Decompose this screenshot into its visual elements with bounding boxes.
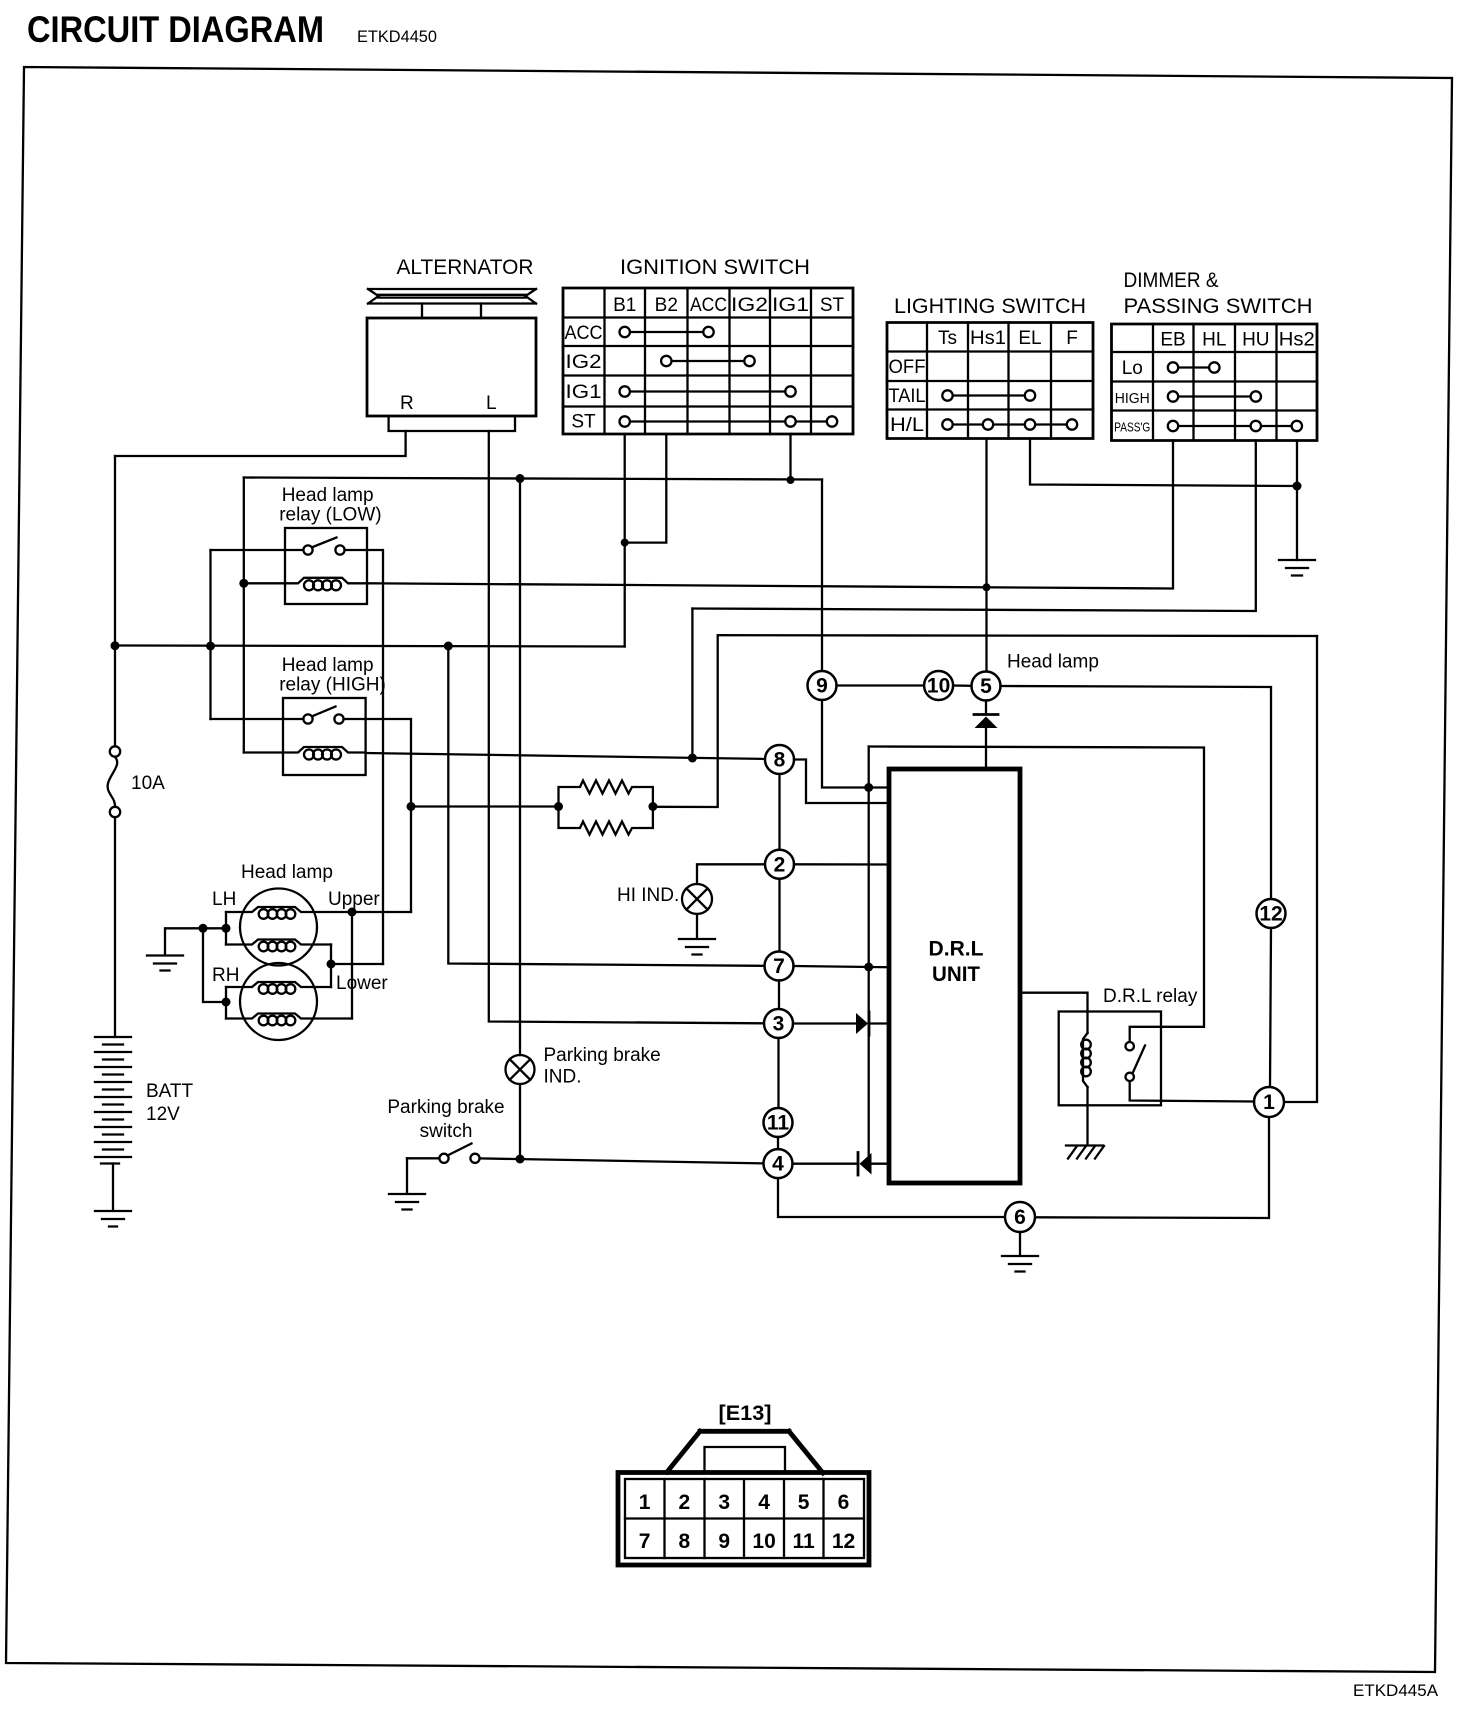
junction LH bracket xyxy=(222,924,231,933)
svg-text:ETKD4450: ETKD4450 xyxy=(357,27,437,46)
svg-text:BATT: BATT xyxy=(146,1081,194,1102)
svg-text:Head lamp: Head lamp xyxy=(282,655,374,676)
ground D.R.L relay (hatched) xyxy=(1066,1146,1104,1159)
dimmer HIGH row contacts xyxy=(1168,391,1261,401)
svg-text:EL: EL xyxy=(1018,328,1041,349)
svg-text:Head lamp: Head lamp xyxy=(1007,652,1099,673)
wire diode common rail vertical xyxy=(868,747,870,1164)
lighting switch H/L row contacts xyxy=(942,419,1077,429)
wire resistor net down right side to node 1 xyxy=(1284,636,1317,1102)
junction Lower xyxy=(327,960,336,969)
wire LH lower / RH upper bracket xyxy=(330,945,332,988)
svg-text:9: 9 xyxy=(718,1530,730,1553)
wire head lamp common to ground xyxy=(165,928,226,954)
svg-text:Head lamp: Head lamp xyxy=(241,862,333,883)
svg-text:Upper: Upper xyxy=(328,889,380,910)
wire dimmer EB column down to relay LOW coil wire xyxy=(367,441,1173,589)
svg-text:Hs2: Hs2 xyxy=(1279,330,1315,351)
svg-text:IG2: IG2 xyxy=(566,352,602,373)
ignition switch IG2 row contacts xyxy=(661,356,755,366)
wire dimmer HU column down to relay HIGH coil net xyxy=(692,441,1255,612)
diode below node 5 xyxy=(974,701,998,770)
junction relay LOW coil branch xyxy=(239,579,248,588)
wire LH to RH common link xyxy=(203,928,226,1002)
svg-text:IG1: IG1 xyxy=(566,382,602,403)
svg-text:DIMMER &: DIMMER & xyxy=(1124,269,1219,292)
junction lamp on switch wire xyxy=(516,1155,525,1164)
wire battery positive rail (left vertical) xyxy=(114,456,116,746)
wire node 6 to node 1 riser xyxy=(1035,1117,1269,1218)
wire node 4 to node 6 ground run xyxy=(778,1179,1005,1217)
svg-text:switch: switch xyxy=(420,1121,473,1142)
svg-text:IG1: IG1 xyxy=(772,295,809,316)
svg-text:UNIT: UNIT xyxy=(932,963,980,986)
svg-text:ETKD445A: ETKD445A xyxy=(1353,1681,1439,1700)
wire resistor feed from Upper vertical xyxy=(411,805,559,807)
diode D.R.L unit to node 4 xyxy=(793,1153,890,1176)
head lamp LH lower filament xyxy=(226,940,331,945)
svg-text:10: 10 xyxy=(752,1530,775,1553)
junction Hs1 wire with head lamp relay LOW coil wire xyxy=(983,583,991,591)
junction node 9 wire on diode rail xyxy=(864,783,873,792)
dimmer PASS'G row contacts xyxy=(1168,421,1302,431)
wire parking brake switch to node 4 xyxy=(480,1158,764,1163)
svg-text:3: 3 xyxy=(718,1491,730,1514)
wire ignition IG1 column stub xyxy=(789,434,791,480)
node 6 xyxy=(1005,1202,1035,1232)
node 12 xyxy=(1257,899,1286,928)
wire battery negative to ground xyxy=(112,1164,114,1211)
svg-text:B1: B1 xyxy=(613,295,636,316)
wire battery bus horizontal xyxy=(115,646,625,647)
ground HI IND xyxy=(679,939,715,955)
wire node 6 to ground xyxy=(1019,1232,1021,1255)
wire IG1 feed to relay coils (node 9 wire) xyxy=(244,478,822,480)
wire relay contacts feed bracket xyxy=(209,550,211,719)
D.R.L unit xyxy=(889,769,1020,1183)
dimmer Lo row contacts xyxy=(1168,362,1220,372)
svg-text:10A: 10A xyxy=(131,773,165,794)
svg-text:7: 7 xyxy=(773,955,785,978)
wire resistor output up and right xyxy=(653,635,1317,807)
svg-text:HL: HL xyxy=(1202,330,1226,351)
svg-text:F: F xyxy=(1066,328,1078,349)
wire Upper junction to relay HIGH vertical xyxy=(352,911,411,913)
wire dimmer Hs2 column to ground xyxy=(1296,441,1298,561)
svg-text:4: 4 xyxy=(772,1153,784,1176)
svg-text:L: L xyxy=(486,393,497,414)
svg-text:D.R.L relay: D.R.L relay xyxy=(1103,986,1198,1007)
ignition switch IG1 row contacts xyxy=(620,386,796,396)
svg-text:ACC: ACC xyxy=(690,295,727,316)
svg-text:11: 11 xyxy=(792,1530,815,1553)
wire node 10 to node 5 xyxy=(953,684,971,687)
svg-text:HIGH: HIGH xyxy=(1115,390,1150,407)
svg-text:OFF: OFF xyxy=(889,357,926,378)
ground Hs2 xyxy=(1279,560,1315,576)
wire RH filament bracket xyxy=(225,987,227,1019)
ground head lamp xyxy=(147,956,183,971)
node 2 xyxy=(765,850,794,879)
svg-text:HI IND.: HI IND. xyxy=(617,885,679,906)
svg-text:LIGHTING SWITCH: LIGHTING SWITCH xyxy=(894,295,1086,318)
node 7 xyxy=(765,952,794,981)
connector E13 pin numbers xyxy=(639,1491,855,1553)
alternator box xyxy=(367,318,536,431)
wire node 8 to D.R.L unit xyxy=(794,760,889,804)
svg-text:5: 5 xyxy=(798,1491,810,1514)
wire diode rail to D.R.L relay contact xyxy=(869,747,1204,1043)
wire node 9 vertical xyxy=(821,480,823,672)
node 3 xyxy=(764,1009,793,1038)
connector E13 body xyxy=(618,1473,869,1566)
junction parking brake lamp feed xyxy=(516,474,525,483)
wire alternator R lead xyxy=(115,431,406,456)
wire Upper junction down to RH lower filament xyxy=(351,912,353,1019)
svg-text:2: 2 xyxy=(678,1491,690,1514)
svg-text:Hs1: Hs1 xyxy=(970,328,1006,349)
svg-text:relay (HIGH): relay (HIGH) xyxy=(279,675,386,696)
wire ignition B2 column joining B1 xyxy=(625,434,667,543)
wire relay LOW switch output to Lower beam xyxy=(345,550,384,964)
dimmer switch table xyxy=(1112,324,1318,441)
svg-text:ST: ST xyxy=(820,295,845,316)
svg-text:9: 9 xyxy=(816,675,828,698)
wire fuse to battery xyxy=(114,818,116,1038)
svg-text:PASS'G: PASS'G xyxy=(1114,421,1150,435)
wire bus branch down to node 7 xyxy=(448,646,764,966)
svg-text:ST: ST xyxy=(571,412,596,433)
wire to relay LOW switch contact xyxy=(211,549,304,551)
wire relay HIGH coil to node 8 xyxy=(366,753,765,759)
svg-text:1: 1 xyxy=(639,1491,651,1514)
svg-text:7: 7 xyxy=(639,1530,651,1553)
svg-text:3: 3 xyxy=(773,1013,785,1036)
junction Upper xyxy=(348,908,357,917)
junction B1-B2 xyxy=(621,539,629,547)
svg-text:R: R xyxy=(400,393,414,414)
svg-text:1: 1 xyxy=(1263,1091,1275,1114)
ground battery xyxy=(95,1211,131,1227)
svg-text:4: 4 xyxy=(758,1491,770,1514)
node 9 xyxy=(808,671,837,700)
wire node 2 to D.R.L unit xyxy=(794,863,889,866)
svg-text:ALTERNATOR: ALTERNATOR xyxy=(397,256,534,279)
lamp parking brake IND xyxy=(506,1055,535,1084)
head lamp RH bulb xyxy=(212,963,317,1040)
ignition switch ACC row contacts xyxy=(620,327,714,337)
wire node 3 to diode xyxy=(793,1022,856,1024)
connector E13 housing top xyxy=(667,1431,823,1473)
wire relay HIGH switch output to Upper beam xyxy=(344,719,412,912)
svg-text:6: 6 xyxy=(838,1491,850,1514)
node 10 xyxy=(924,671,953,700)
svg-text:8: 8 xyxy=(774,749,786,772)
junction IG1 to relay feed wire xyxy=(787,476,795,484)
ground node 6 xyxy=(1002,1256,1038,1272)
wire HI IND lamp to node 2 xyxy=(697,864,765,884)
svg-text:5: 5 xyxy=(980,675,992,698)
wire D.R.L unit to relay coil xyxy=(1020,993,1088,1033)
wire node 5 to node 12 rail xyxy=(1001,686,1272,899)
svg-text:EB: EB xyxy=(1160,330,1185,351)
wire alternator L lead down to node 3 xyxy=(489,431,764,1023)
wire D.R.L relay output to node 1 xyxy=(1130,1081,1254,1101)
junction node 8 wire to dimmer HU xyxy=(688,754,697,763)
svg-text:12V: 12V xyxy=(146,1104,180,1125)
battery BATT 12V xyxy=(95,1037,194,1164)
head lamp relay LOW xyxy=(244,528,367,604)
svg-text:Parking brake: Parking brake xyxy=(387,1097,504,1118)
head lamp RH lower filament xyxy=(226,1014,352,1019)
junction node 7 wire on diode rail xyxy=(864,963,873,972)
wire to relay HIGH switch contact xyxy=(211,718,304,720)
svg-text:LH: LH xyxy=(212,889,236,910)
diode node 3 to D.R.L unit xyxy=(856,1012,889,1035)
junction bus at left rail xyxy=(111,641,120,650)
svg-text:8: 8 xyxy=(678,1530,690,1553)
junction bus to relay contacts branch xyxy=(206,642,215,651)
junction EL wire on Hs2 ground rail xyxy=(1293,482,1302,491)
wire node 7 to node 3 xyxy=(778,981,780,1010)
svg-text:11: 11 xyxy=(767,1112,790,1135)
lighting switch TAIL row contacts xyxy=(942,390,1035,400)
svg-text:ACC: ACC xyxy=(565,323,603,344)
wire LH filament bracket xyxy=(225,912,227,945)
svg-text:HU: HU xyxy=(1242,330,1269,351)
svg-text:IND.: IND. xyxy=(544,1067,582,1088)
ground parking brake switch xyxy=(389,1194,425,1210)
wire node 9 to D.R.L unit dogleg xyxy=(822,700,889,788)
lamp HI IND xyxy=(682,884,712,914)
svg-text:D.R.L: D.R.L xyxy=(929,938,984,961)
wire ignition B1 column down to battery bus xyxy=(624,434,626,647)
junction resistor feed on Upper wire xyxy=(407,802,416,811)
svg-text:Lo: Lo xyxy=(1122,358,1143,379)
head lamp RH upper filament xyxy=(226,982,331,987)
junction bus to pin7 branch xyxy=(444,642,453,651)
junction head lamp common xyxy=(199,924,208,933)
svg-text:12: 12 xyxy=(1259,903,1282,926)
wire Lower junction to relay LOW vertical xyxy=(331,963,383,965)
head lamp LH upper filament xyxy=(226,907,352,912)
wire relay coil feed vertical xyxy=(243,478,245,753)
parking brake switch xyxy=(407,1144,480,1163)
node 5 xyxy=(972,672,1001,701)
fuse 10A xyxy=(108,746,166,817)
svg-text:IGNITION SWITCH: IGNITION SWITCH xyxy=(620,256,810,279)
wire node 9 to node 10 xyxy=(837,684,925,686)
svg-text:2: 2 xyxy=(774,853,786,876)
svg-text:B2: B2 xyxy=(655,295,678,316)
wire D.R.L relay coil to ground xyxy=(1086,1087,1088,1145)
svg-text:10: 10 xyxy=(927,675,950,698)
wire parking brake switch to ground xyxy=(406,1158,408,1193)
wire lighting EL column to ground rail xyxy=(1030,439,1297,487)
wire node 2 to node 7 xyxy=(778,879,780,952)
wire lighting Hs1 column down to node 5 xyxy=(985,439,987,672)
wire node 3 to node 11 xyxy=(777,1038,779,1108)
ignition switch ST row contacts xyxy=(620,416,838,426)
wire node 11 to node 4 xyxy=(777,1137,779,1149)
svg-text:IG2: IG2 xyxy=(731,295,768,316)
head lamp relay HIGH xyxy=(244,698,366,775)
lighting switch table xyxy=(887,323,1093,439)
svg-text:PASSING SWITCH: PASSING SWITCH xyxy=(1124,295,1313,318)
resistor pair (parallel) xyxy=(554,781,657,835)
svg-text:relay (LOW): relay (LOW) xyxy=(279,505,381,526)
wire junction up to HU net xyxy=(691,609,693,759)
wire node 7 to D.R.L unit xyxy=(794,966,890,967)
svg-text:Lower: Lower xyxy=(336,973,388,994)
head lamp LH bulb xyxy=(212,889,317,966)
wire HI IND lamp to ground xyxy=(696,914,698,938)
D.R.L relay xyxy=(1059,1012,1161,1106)
wire parking brake lamp feed vertical xyxy=(519,479,521,1056)
svg-text:TAIL: TAIL xyxy=(889,386,926,407)
node 8 xyxy=(765,745,794,774)
svg-text:[E13]: [E13] xyxy=(719,1402,772,1425)
junction RH bracket xyxy=(222,998,231,1007)
svg-text:Ts: Ts xyxy=(938,328,957,349)
alternator pulley xyxy=(368,289,536,318)
svg-text:CIRCUIT DIAGRAM: CIRCUIT DIAGRAM xyxy=(27,9,324,50)
svg-text:12: 12 xyxy=(832,1530,855,1553)
ignition switch table xyxy=(563,288,853,434)
svg-text:RH: RH xyxy=(212,965,239,986)
wire node 8 to node 2 xyxy=(778,774,780,850)
node 1 xyxy=(1254,1087,1284,1117)
svg-text:Head lamp: Head lamp xyxy=(282,485,374,506)
svg-text:Parking brake: Parking brake xyxy=(544,1045,661,1066)
wire node 12 to node 1 xyxy=(1270,928,1271,1088)
svg-text:6: 6 xyxy=(1014,1206,1026,1229)
node 4 xyxy=(764,1149,793,1178)
svg-text:H/L: H/L xyxy=(890,415,924,436)
wire parking brake lamp to switch wire xyxy=(519,1084,521,1159)
node 11 xyxy=(764,1108,793,1137)
